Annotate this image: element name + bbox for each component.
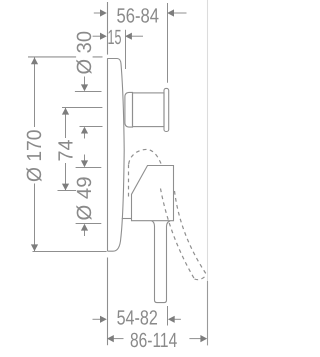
- arrow 86-114 left: [107, 335, 114, 342]
- neck bottom line: [122, 218, 132, 220]
- plate bottom extension for Ø170: [33, 251, 107, 253]
- wall extension line below plate: [107, 258, 109, 346]
- faint page artifact line: [207, 0, 209, 281]
- arrow 56-84 left: [100, 9, 107, 16]
- svg-text:56-84: 56-84: [117, 5, 160, 28]
- dim Ø170 line: [34, 57, 36, 251]
- dim 15 extension right: [125, 30, 127, 69]
- arrow 86-114 right: [200, 335, 207, 342]
- dim 74 line: [65, 108, 67, 190]
- cartridge body: [133, 93, 165, 127]
- arrow 56-84 right: [167, 9, 174, 16]
- label Ø 49 (rotated): [73, 176, 96, 222]
- arrow 54-82 right: [168, 316, 175, 323]
- wall extension line above plate: [107, 2, 109, 55]
- svg-text:15: 15: [108, 26, 122, 49]
- svg-text:74: 74: [54, 140, 77, 162]
- extension line from dashed lever tip: [207, 281, 209, 345]
- arrow 15 right: [125, 33, 132, 40]
- arrow Ø170 bottom: [31, 244, 38, 251]
- arrow Ø49 top: [81, 160, 88, 167]
- dim 56-84 arrow tails: [94, 12, 100, 14]
- dim 15 arrow tails: [92, 35, 100, 37]
- arrow 74 bottom: [62, 184, 69, 191]
- dashed rotated lever lower edge: [161, 189, 195, 280]
- dim Ø30 extension lines: [75, 91, 102, 93]
- dim 54-82 extension right: [167, 306, 169, 326]
- lever left edge: [152, 221, 157, 303]
- svg-text:86-114: 86-114: [130, 329, 177, 352]
- arrow 74 top: [62, 108, 69, 115]
- label 74 (rotated): [54, 138, 77, 163]
- arrow 54-82 left: [100, 316, 107, 323]
- dashed rotated lever upper edge: [175, 191, 207, 275]
- plate top extension for Ø170: [28, 56, 103, 58]
- dim Ø49 arrow tails: [84, 155, 86, 161]
- label Ø 170 (rotated): [23, 127, 46, 184]
- arrow Ø30 bottom: [81, 127, 88, 134]
- plate back (wall face): [107, 58, 109, 251]
- dim Ø49 extension lines: [76, 167, 102, 169]
- dashed rotated hub top arc: [129, 149, 162, 164]
- arrow Ø170 top: [31, 57, 38, 64]
- svg-text:Ø 30: Ø 30: [73, 31, 96, 74]
- dim 54-82 arrow tails: [93, 318, 101, 320]
- arrow 15 left: [100, 33, 107, 40]
- svg-text:Ø 49: Ø 49: [73, 177, 96, 221]
- escutcheon plate outline: [108, 59, 125, 252]
- cartridge end cap: [164, 88, 169, 131]
- handle hub: [132, 166, 174, 221]
- dim 74 extension lines: [62, 107, 102, 109]
- svg-text:54-82: 54-82: [117, 307, 158, 330]
- arrow Ø49 bottom: [81, 224, 88, 231]
- dashed rotated lever tip cap: [195, 275, 207, 280]
- cartridge sleeve: [125, 92, 133, 127]
- label Ø 30 (rotated): [73, 31, 96, 75]
- svg-text:Ø 170: Ø 170: [23, 130, 46, 183]
- arrow Ø30 top: [81, 84, 88, 91]
- dim 86-114 arrow tails: [113, 338, 124, 340]
- dim 56-84 extension right: [167, 3, 169, 83]
- lever right edge: [157, 221, 170, 303]
- dashed rotated hub left edge: [128, 164, 130, 197]
- dim Ø30 arrow tails: [84, 77, 86, 86]
